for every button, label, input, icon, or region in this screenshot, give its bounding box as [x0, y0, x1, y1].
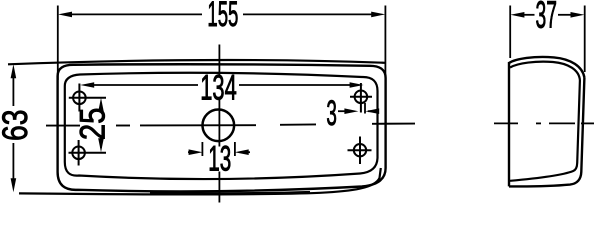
- dimension 63: [12, 76, 14, 180]
- dimension 13 extension ticks: [188, 142, 250, 156]
- dimension 13 arrows: [189, 149, 203, 155]
- side view centerline: [494, 122, 594, 124]
- lamp outer housing outline (front view): [58, 64, 386, 191]
- lens dome bottom silhouette line: [19, 168, 381, 194]
- dimension 3: [338, 103, 374, 114]
- svg-text:3: 3: [326, 94, 337, 133]
- dimension 155: [58, 6, 386, 81]
- svg-text:37: 37: [535, 0, 557, 37]
- svg-text:25: 25: [74, 108, 113, 140]
- center hole circle: [203, 110, 235, 142]
- lens dome top silhouette line: [8, 60, 385, 64]
- svg-text:155: 155: [207, 0, 238, 34]
- horizontal centerline (front view): [46, 124, 415, 126]
- side view inner lens line: [510, 62, 580, 181]
- screw hole top-right: [350, 83, 372, 113]
- dimension 134: [93, 84, 350, 86]
- inner mounting plate outline: [65, 73, 378, 179]
- screw hole top-left: [69, 84, 106, 112]
- dimension 25: [98, 98, 104, 112]
- vertical centerline (front view): [218, 45, 220, 203]
- dimension 37: [510, 6, 585, 73]
- lens bottom edge fuse line: [150, 192, 310, 193]
- screw hole bottom-left: [69, 140, 107, 166]
- svg-text:134: 134: [200, 69, 237, 108]
- side view body outline: [509, 57, 584, 186]
- screw hole bottom-right: [348, 137, 372, 165]
- svg-text:13: 13: [208, 140, 231, 179]
- svg-text:63: 63: [0, 110, 35, 142]
